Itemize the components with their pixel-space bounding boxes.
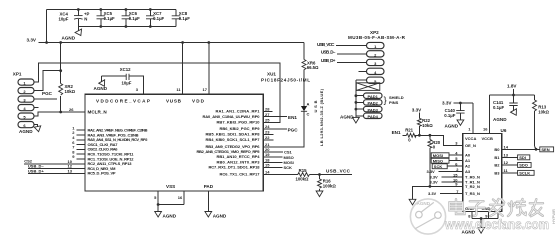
svg-text:MU3B-05-F-AB-SM-A-R: MU3B-05-F-AB-SM-A-R [348,35,406,40]
ground AGND R16 [316,191,323,197]
svg-text:USB: USB [313,100,318,112]
wire cap-bank left vertical [45,10,48,44]
svg-text:VDD: VDD [192,98,205,103]
svg-text:66.5Ω: 66.5Ω [307,65,319,70]
svg-text:14: 14 [265,170,270,175]
svg-text:3.3V: 3.3V [430,180,439,185]
svg-text:VCCB: VCCB [482,136,493,141]
node USB_VCC label at XP2 [317,42,367,47]
node SEN port [540,147,554,152]
svg-text:SEN: SEN [541,147,549,152]
svg-text:PAD4: PAD4 [368,114,379,119]
svg-text:0.1µF: 0.1µF [153,16,164,21]
svg-text:3.3V: 3.3V [442,101,452,106]
node 3.3V at U6 A3 [427,169,463,174]
node 3.3V at U6 T_R1_N [430,180,463,185]
svg-text:T_R2_N: T_R2_N [465,184,480,189]
node SCK port at U6 [432,164,463,169]
svg-text:PAD1: PAD1 [368,94,379,99]
capacitor XC4 [59,10,90,27]
U1 right pin numbers [265,107,270,175]
resistor XR6 [302,60,319,107]
op-amp U1 PIC18F24J50 body [85,72,310,192]
svg-text:RB4_KBI0_SCK1_SCL1_RP7: RB4_KBI0_SCK1_SCL1_RP7 [206,137,261,142]
node MOSI port at U1 [263,160,294,165]
wire U1 pin27 to EN1 [263,116,287,118]
svg-text:10kΩ: 10kΩ [422,123,433,128]
svg-text:AGND: AGND [493,117,507,122]
wire XP1 pin3 PGC stub [34,98,57,100]
svg-text:3.3V: 3.3V [27,38,37,43]
resistor R16 [318,175,337,192]
svg-text:PAD3: PAD3 [368,107,379,112]
svg-text:RC6_TX1_CK1_RP17: RC6_TX1_CK1_RP17 [220,172,261,177]
svg-text:EN1: EN1 [392,130,401,135]
svg-text:U6: U6 [501,128,507,133]
U1 left pin stubs with numbers [72,125,85,159]
svg-text:SCLK: SCLK [519,170,530,175]
svg-text:0.1µF: 0.1µF [129,16,140,21]
svg-text:R15: R15 [299,168,307,173]
capacitor XC7 [146,10,165,27]
capacitor XC8 [172,10,191,27]
wire 3.3V rail [39,42,305,44]
svg-text:RA0_AN0_C1INA_ULPWU_RP0: RA0_AN0_C1INA_ULPWU_RP0 [203,114,261,119]
svg-text:OE_N: OE_N [465,143,476,148]
svg-text:SCK: SCK [434,164,443,169]
svg-text:SDI: SDI [519,155,526,160]
svg-text:USB_D+: USB_D+ [321,58,336,63]
U1 right pin names [197,109,261,177]
node 3.3V label at R22 [412,108,422,113]
svg-text:RB5_KBI1_SDI1_SDA1_RP8: RB5_KBI1_SDI1_SDA1_RP8 [206,132,261,137]
capacitor XC5 [97,10,116,27]
wire XP2 shield vertical to ground [355,80,357,117]
svg-text:A: A [307,101,310,106]
svg-text:C: C [307,111,310,116]
svg-text:A2: A2 [465,164,471,169]
ground AGND U1 PAD [205,212,227,219]
wire XP1 pin4 stub [34,107,39,109]
wire U1 VSS pins 5 and 16 to ground [154,191,184,212]
svg-text:MCLR_N: MCLR_N [88,110,108,115]
svg-text:10µF: 10µF [59,17,69,22]
svg-text:0.1µF: 0.1µF [444,113,455,118]
resistor R13 [533,95,550,149]
wire XP1 pin1 to U1 pin25 PGD net [34,63,280,122]
svg-text:AGND: AGND [445,124,459,129]
wire cap-bank bottom rail [78,25,176,28]
svg-text:T_R3_N: T_R3_N [465,191,480,196]
svg-text:A0: A0 [465,153,471,158]
wire U1 pin23 stub [263,133,273,135]
svg-text:22: 22 [265,135,270,140]
svg-text:AGND: AGND [94,86,108,91]
svg-text:USB_VCC: USB_VCC [326,168,351,173]
node CS1 port [263,150,292,155]
svg-text:3.3V: 3.3V [428,191,437,196]
svg-text:A3: A3 [465,169,471,174]
ground AGND C140 [445,120,464,129]
U6 right pin names [494,147,500,176]
ground AGND cap-bank [62,27,85,41]
wire MCLR to U1 pin26 [61,107,85,112]
svg-text:MISO: MISO [433,158,443,163]
connector XP2 PAD3 [355,106,383,112]
resistor R15 [263,168,319,181]
svg-text:}: } [384,95,387,105]
wire U1 PAD pin to ground [207,191,209,212]
svg-text:AGND: AGND [213,214,227,219]
svg-text:14: 14 [504,144,509,149]
svg-text:23: 23 [265,130,270,135]
svg-text:27: 27 [265,112,270,117]
ground AGND U6 T_R2 [409,199,431,206]
svg-text:R21: R21 [405,128,413,133]
svg-text:13: 13 [68,169,73,174]
svg-text:SCK: SCK [284,165,293,170]
wire 3.3V to U1 VDD pin17 [207,41,210,94]
svg-text:3.3V: 3.3V [412,108,422,113]
wire XP2 pin4 stub [359,70,367,72]
watermark chinese text [450,199,544,216]
svg-text:19: 19 [265,152,270,157]
svg-text:1.8V: 1.8V [507,84,517,89]
wire U6 T_R2_N to ground [413,186,463,199]
svg-text:XC12: XC12 [120,67,131,72]
svg-text:PGC: PGC [42,91,53,96]
svg-text:17: 17 [203,87,208,92]
node SDO port [502,160,531,168]
svg-text:www.elecfans.com: www.elecfans.com [444,217,549,232]
node 3.3V at U6 T_R3_N [428,191,463,196]
node PGC label at XP1 [42,91,53,96]
svg-text:0.1µF: 0.1µF [104,16,115,21]
U1 left pin names [88,110,149,176]
svg-text:N: N [84,17,87,22]
wire 3.3V to U6 VCCA pin1 [472,103,474,133]
node SCLK port [502,168,534,176]
wire XP1 pin2 to 3.3V [34,69,62,90]
svg-text:VCCA: VCCA [465,136,476,141]
connector XP2 shield crossed box [356,83,380,91]
resistor R20 [428,134,441,188]
svg-text:0.1µF: 0.1µF [493,105,504,110]
svg-text:PINS: PINS [389,100,399,105]
svg-text:USB_D+: USB_D+ [28,169,45,174]
svg-text:RC5_D_POS_VP: RC5_D_POS_VP [88,171,116,176]
op-amp U6 level translator body [463,127,507,212]
capacitor C140 [444,103,464,120]
U6 left pin names [465,143,491,211]
svg-text:15: 15 [265,163,270,168]
wire U1 pin28 stub [263,111,272,113]
svg-text:10kΩ: 10kΩ [538,110,549,115]
node USB_D+ label at XP2 [321,58,367,63]
svg-text:USB_VCC: USB_VCC [317,42,335,47]
connector XP2 [348,30,406,84]
svg-text:B0: B0 [494,147,500,152]
svg-text:13: 13 [504,152,509,157]
wire U6 GND pins to ground [468,212,498,228]
node CS2 port [24,159,85,164]
node 1.8V label [507,84,517,95]
wire cap-bank top rail [47,8,176,11]
svg-text:XP1: XP1 [13,72,22,77]
node PGC label at U1 [288,127,299,132]
svg-text:24: 24 [265,124,270,129]
svg-text:12: 12 [504,160,509,165]
connector XP2 PAD4 [356,113,382,119]
svg-text:RC7_RX1_DT1_SDO1_RP18: RC7_RX1_DT1_SDO1_RP18 [209,165,261,170]
resistor R22 [417,112,433,136]
connector XP2 PAD1 [355,93,383,99]
node SCK port at U1 [263,165,292,170]
node 3.3V label [27,38,37,43]
svg-text:B1: B1 [494,155,500,160]
diode LED USB indicator [301,88,324,147]
svg-text:VSS: VSS [166,184,175,189]
watermark vertical id [551,209,556,224]
node MOSI port at U6 [431,153,463,158]
capacitor C141 [493,95,518,111]
svg-text:100kΩ: 100kΩ [323,183,337,188]
wire U1 pin24 to PGC [263,128,287,130]
svg-text:AGND: AGND [340,114,354,119]
svg-text:25: 25 [265,118,270,123]
svg-text:100kΩ: 100kΩ [296,176,310,181]
ground AGND XP1 pin6 [19,125,42,135]
node USB_D- port left [28,164,85,169]
resistor XR2 [59,41,76,112]
node USB_D- label at XP2 [321,50,367,55]
wire U1 pin22 stub [263,139,273,141]
svg-text:RB6_KBI2_PGC_RP9: RB6_KBI2_PGC_RP9 [220,126,261,131]
svg-text:26: 26 [69,107,74,112]
ground AGND U6 [462,228,485,235]
svg-text:PAD: PAD [204,184,214,189]
wire XP1 pin5 to MCLR [34,111,62,116]
svg-text:RB7_KBI3_PGD_RP10: RB7_KBI3_PGD_RP10 [217,120,261,125]
svg-text:SDO: SDO [519,163,528,168]
connector XP2 PAD2 [355,100,383,106]
wire XP2 pin5 to shield net [356,79,367,81]
capacitor XC6 [122,10,141,27]
resistor R21 [405,128,463,146]
svg-text:10µF: 10µF [122,80,132,85]
ground AGND XC12 [94,76,108,91]
node MISO port at U6 [431,158,463,163]
wire 1.8V rail [490,94,535,97]
node EN1 label at U1 [288,115,297,120]
capacitor XC12 [102,67,144,94]
svg-text:PIC18F24J50-I/ML: PIC18F24J50-I/ML [261,78,310,83]
svg-text:PGC: PGC [288,127,299,132]
connector XP1 [13,72,34,129]
wire U6 B0 to SEN [502,144,540,150]
svg-text:16: 16 [178,195,183,200]
node MISO port at U1 [263,155,294,160]
svg-text:RB1_AN10_RTCC_RP4: RB1_AN10_RTCC_RP4 [217,154,261,159]
wire 3.3V rail corner to XR6 [303,43,305,60]
svg-text:EN1: EN1 [288,115,297,120]
svg-text:AGND: AGND [19,129,33,134]
svg-text:LB L293-NN2-35-Z (BLUE): LB L293-NN2-35-Z (BLUE) [319,88,324,146]
svg-text:USB_D–: USB_D– [321,50,336,55]
svg-text:MOSI: MOSI [433,153,443,158]
node SDI port [502,152,530,160]
svg-text:PAD2: PAD2 [368,101,379,106]
svg-text:AGND: AGND [62,36,76,41]
watermark url text [444,217,549,232]
svg-text:AGND: AGND [163,214,177,219]
node USB_VCC label at R15 [318,168,352,176]
wire 3.3V to U1 VUSB pin11 [181,41,184,94]
ground AGND XP2 shield [340,114,359,123]
svg-text:B2: B2 [494,163,500,168]
svg-text:VUSB: VUSB [166,98,182,103]
wire U1 pin21 to LED [263,112,304,147]
ground AGND U1 VSS [155,212,177,219]
node EN1 label at R21 [392,130,407,136]
svg-text:3.3V: 3.3V [427,169,436,174]
svg-text:0.1µF: 0.1µF [179,16,190,21]
node 3.3V at U6 T_R0_N [430,175,463,180]
wire 1.8V to U6 VCCB pin16 [489,95,491,133]
svg-text:XU1: XU1 [267,72,276,77]
node 3.3V label at C140 [442,101,473,106]
watermark logo circle [410,199,445,234]
svg-text:HYPWR: HYPWR [551,209,556,224]
svg-text:B3: B3 [494,170,500,175]
svg-text:A1: A1 [465,158,471,163]
ground AGND C141 [493,109,519,122]
node SHIELD PINS note [384,95,404,105]
svg-text:10kΩ: 10kΩ [65,89,76,94]
node USB_D+ port left [28,169,85,174]
U6 left pin numbers [453,141,459,194]
svg-text:16: 16 [483,127,488,132]
